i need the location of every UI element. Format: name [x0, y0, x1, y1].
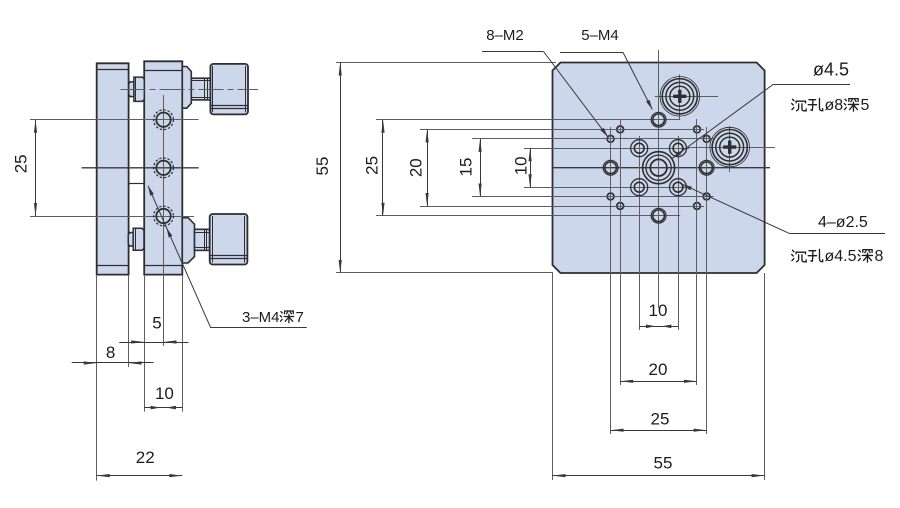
svg-text:10: 10 [649, 301, 668, 320]
left view: bottom knob [210, 214, 248, 265]
svg-text:8: 8 [106, 343, 115, 362]
dimension 15 vertical [480, 139, 482, 197]
dimension 10 bottom [639, 326, 678, 328]
left view: moving plate [144, 61, 182, 274]
front view: M4 hole west [605, 162, 617, 174]
front view: counterbored hole 1 [634, 143, 644, 153]
front view: M4 hole south [653, 210, 665, 222]
front view: center counterbored hole [650, 159, 667, 176]
front view: M2 hole 3 [607, 136, 614, 143]
label counterbore dia4.5 depth8 [792, 250, 806, 262]
front view: M2 hole 7 [617, 203, 624, 210]
front view: plate [553, 63, 765, 274]
left view: top adjuster shaft [191, 78, 210, 100]
svg-text:15: 15 [457, 158, 476, 177]
front view: counterbored hole 3 [634, 182, 644, 192]
front view: M2 hole 4 [703, 136, 710, 143]
front view: counterbored hole 2 [673, 143, 683, 153]
svg-text:25: 25 [363, 156, 382, 175]
dimension 5 [119, 342, 188, 344]
dimension 55 vertical [336, 62, 556, 64]
left view: gap step line [129, 183, 145, 185]
front view: M2 hole 5 [607, 193, 614, 200]
left view: top adjuster boss [182, 67, 191, 109]
left view: bottom adjuster screw head [128, 233, 133, 247]
dimension 10 left view [144, 407, 182, 409]
svg-text:ø4.5: ø4.5 [813, 60, 849, 80]
front view: row centerlines [376, 119, 680, 121]
dimension 22 [97, 475, 183, 477]
svg-text:8: 8 [875, 248, 884, 265]
svg-text:20: 20 [649, 360, 668, 379]
left view: hole column centerline [163, 95, 165, 346]
leader 4-dia2.5 counterbore [790, 233, 885, 235]
dimension 25 left view [35, 120, 37, 216]
svg-text:25: 25 [11, 154, 30, 173]
leader 5-M4 [560, 52, 623, 54]
front view: M2 hole 8 [694, 203, 701, 210]
front view: thumbscrew top [655, 96, 719, 98]
svg-text:25: 25 [651, 410, 670, 429]
left view: top adjuster centerline [121, 89, 259, 91]
left view: extension lines below [96, 275, 98, 481]
svg-text:20: 20 [407, 158, 426, 177]
left view: tapped hole 1 [156, 113, 170, 127]
dimension 25 bottom [611, 430, 707, 432]
svg-text:5: 5 [152, 313, 161, 332]
left view: bottom adjuster boss [182, 218, 194, 263]
dimension 20 vertical [427, 129, 429, 206]
dimension 20 bottom [620, 381, 697, 383]
left view: hole row centerlines [30, 119, 199, 121]
dimension 25 vertical [382, 120, 384, 216]
left view: fixed plate [97, 63, 129, 274]
leader 3-M4 depth 7 [148, 186, 211, 328]
svg-text:4–ø2.5: 4–ø2.5 [818, 214, 868, 231]
left view: bottom adjuster shaft [195, 229, 210, 250]
svg-text:5: 5 [861, 97, 870, 114]
svg-text:8–M2: 8–M2 [486, 27, 524, 44]
svg-text:55: 55 [654, 454, 673, 473]
front view: counterbored hole 4 [673, 182, 683, 192]
front view: M4 hole east [701, 162, 713, 174]
svg-text:10: 10 [512, 156, 531, 175]
svg-text:ø8: ø8 [825, 97, 844, 114]
left view: tapped hole 2 [156, 161, 170, 175]
left view: tapped hole 3 [156, 209, 170, 223]
svg-text:22: 22 [136, 448, 155, 467]
dimension 8 [72, 362, 154, 364]
svg-text:5–M4: 5–M4 [581, 27, 619, 44]
front view: M4 hole north [653, 114, 665, 126]
label counterbore dia8 depth5 [792, 99, 806, 111]
svg-text:7: 7 [296, 309, 304, 326]
svg-text:3–M4: 3–M4 [242, 309, 280, 326]
svg-text:10: 10 [155, 384, 174, 403]
front view: M2 hole 2 [694, 126, 701, 133]
left view: top knob [210, 64, 248, 115]
front view: column centerlines [658, 50, 660, 308]
front view: M2 hole 1 [617, 126, 624, 133]
svg-text:ø4.5: ø4.5 [825, 248, 857, 265]
dimension 55 bottom [553, 475, 765, 477]
leader 8-M2 [482, 51, 544, 53]
front view: M2 hole 6 [703, 193, 710, 200]
svg-text:55: 55 [313, 157, 332, 176]
left view: top adjuster screw head [129, 82, 134, 97]
leader dia 4.5 counterbore [773, 84, 850, 86]
dimension 10 vertical [530, 148, 532, 187]
front view: thumbscrew right [688, 147, 775, 149]
